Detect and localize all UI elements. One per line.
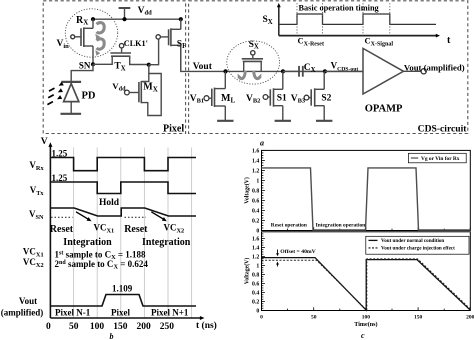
Vdd supply (119, 6, 152, 19)
chart c plot1 region labels (271, 222, 365, 228)
svg-text:150: 150 (113, 322, 128, 332)
svg-text:Time(ns): Time(ns) (354, 321, 377, 328)
svg-text:Vout (amplified): Vout (amplified) (404, 63, 465, 73)
annotation arrows VCx (76, 212, 167, 221)
svg-text:a: a (260, 139, 264, 148)
svg-text:1.2: 1.2 (252, 169, 259, 175)
svg-text:Pixel: Pixel (163, 123, 184, 134)
transistor Tx (pass gate CLK1') (93, 39, 149, 72)
junction Rx drain (91, 17, 95, 21)
svg-text:100: 100 (362, 314, 371, 320)
svg-text:b: b (110, 332, 114, 340)
diagram b gridlines (74, 148, 192, 319)
svg-text:(amplified): (amplified) (1, 308, 44, 318)
photodiode PD (61, 64, 96, 114)
svg-text:1.4: 1.4 (252, 159, 259, 165)
chart c plot2 y ticks (252, 234, 265, 315)
svg-text:S1: S1 (277, 94, 287, 104)
svg-text:0.4: 0.4 (252, 291, 259, 297)
node after Tx (147, 63, 151, 67)
chart c axis titles (244, 177, 251, 284)
svg-text:0.6: 0.6 (252, 199, 259, 205)
svg-text:200: 200 (136, 322, 151, 332)
svg-text:1: 1 (256, 179, 259, 185)
svg-text:1.109: 1.109 (112, 283, 133, 293)
capacitor Cx (283, 63, 325, 77)
svg-text:0.2: 0.2 (252, 300, 259, 306)
junction rail-SF (179, 17, 183, 21)
power rail wire (93, 18, 181, 20)
output terminal Vout (amplified) (404, 63, 465, 74)
svg-text:0.6: 0.6 (252, 282, 259, 288)
pixel box (43, 1, 185, 135)
chart c plot2 waveform normal (solid) (262, 258, 471, 311)
diagram b axes (41, 137, 217, 331)
svg-text:Vout under normal condition: Vout under normal condition (381, 238, 444, 244)
switch Sx (pass transistor) (242, 40, 263, 72)
node SN (79, 61, 95, 71)
svg-text:Vout: Vout (19, 296, 37, 306)
op-amp OPAMP (363, 48, 404, 114)
svg-text:Voltage(V): Voltage(V) (244, 177, 251, 204)
svg-text:V: V (41, 137, 48, 147)
svg-text:1.6: 1.6 (252, 149, 259, 155)
MOS capacitor Mx (gate to Vdd) (112, 65, 161, 116)
svg-text:Pixel N-1: Pixel N-1 (55, 308, 91, 318)
svg-text:0: 0 (260, 314, 263, 320)
chart c frame plot1 (262, 150, 471, 230)
svg-text:1: 1 (256, 264, 259, 270)
chart c offset annotation (276, 249, 317, 266)
svg-text:0: 0 (256, 309, 259, 315)
svg-text:150: 150 (414, 314, 423, 320)
svg-text:CDS-circuit: CDS-circuit (418, 123, 468, 134)
svg-text:Basic operation timing: Basic operation timing (299, 4, 380, 13)
svg-text:Reset operation: Reset operation (271, 222, 307, 228)
svg-text:50: 50 (311, 314, 317, 320)
waveform Vout amplified (1, 283, 196, 317)
svg-text:Vout: Vout (193, 62, 213, 72)
transistor ML (load, VB1) (190, 71, 236, 120)
svg-text:250: 250 (160, 322, 175, 332)
chart c x ticks (260, 227, 474, 327)
svg-text:Pixel: Pixel (111, 308, 130, 318)
svg-text:Reset: Reset (50, 224, 74, 235)
timing inset dotted guides (297, 3, 390, 35)
svg-text:0.2: 0.2 (252, 219, 259, 225)
svg-text:200: 200 (466, 314, 474, 320)
CDS-circuit box (189, 1, 468, 135)
charge injection ellipse at Rx (65, 9, 117, 57)
svg-text:0.8: 0.8 (252, 189, 259, 195)
svg-text:0: 0 (46, 322, 51, 332)
chart c legend 2 (366, 236, 469, 254)
junction Vout-ML (223, 69, 227, 73)
charge injection ellipse at Sx (227, 41, 280, 84)
light arrows (47, 82, 63, 105)
svg-text:c: c (361, 331, 365, 340)
junction Sx-S1 (281, 69, 285, 73)
wire to op-amp (325, 70, 363, 72)
svg-text:1.25: 1.25 (52, 149, 68, 159)
svg-text:t (ns): t (ns) (196, 320, 217, 331)
chart c plot1 y ticks (252, 149, 265, 235)
svg-text:1.6: 1.6 (252, 236, 259, 242)
svg-text:100: 100 (90, 322, 105, 332)
svg-text:Reset: Reset (124, 224, 148, 235)
wire Vout (pixel output) (181, 46, 363, 72)
chart c legend 1 (408, 153, 466, 163)
svg-text:Voltage(V): Voltage(V) (244, 258, 251, 285)
svg-text:0: 0 (256, 229, 259, 235)
svg-text:Vg or Vin for Rx: Vg or Vin for Rx (421, 156, 460, 162)
VSN dotted reference (51, 216, 146, 218)
waveform VTx (30, 173, 196, 197)
waveform VRx (29, 149, 196, 172)
pixel period labels (55, 308, 189, 318)
waveform VSN (29, 208, 196, 221)
svg-text:Integration: Integration (142, 237, 191, 248)
svg-text:PD: PD (82, 90, 96, 101)
transistor SF (source follower) (156, 19, 186, 71)
transistor S1 (VB2) (246, 71, 291, 120)
transistor S2 (VB3) (291, 71, 333, 120)
label c (361, 331, 365, 340)
svg-text:2nd sample to CX = 0.624: 2nd sample to CX = 0.624 (55, 259, 149, 271)
svg-text:50: 50 (69, 322, 79, 332)
svg-text:0.8: 0.8 (252, 273, 259, 279)
sample value lines (23, 247, 148, 271)
svg-text:1.25: 1.25 (52, 173, 68, 183)
svg-text:Integration: Integration (63, 237, 112, 248)
svg-text:OPAMP: OPAMP (365, 104, 403, 115)
label a (260, 139, 264, 148)
chart c plot2 waveform charge injection (dashed) (262, 259, 471, 310)
transistor Rx (57, 15, 94, 65)
svg-text:0.4: 0.4 (252, 209, 259, 215)
Hold label (99, 198, 120, 208)
node VCDS-out (323, 61, 359, 74)
svg-text:Pixel N+1: Pixel N+1 (151, 308, 189, 318)
svg-text:CLK1': CLK1' (124, 39, 148, 48)
timing inset labels (298, 4, 394, 48)
svg-text:1.4: 1.4 (252, 246, 259, 252)
chart c plot1 waveform Vg/Vin for Rx (262, 168, 471, 230)
svg-text:S2: S2 (321, 94, 331, 104)
junction Vdd-rail (122, 17, 126, 21)
svg-text:SN: SN (79, 61, 91, 71)
diagram b tick labels (46, 322, 174, 332)
label b (110, 332, 114, 340)
svg-text:Offset = 40mV: Offset = 40mV (280, 249, 316, 255)
chart c frame plot2 (262, 232, 471, 311)
svg-text:Vout under charge injection ef: Vout under charge injection effect (381, 246, 455, 252)
timing inset axes (263, 3, 452, 46)
diagram b phase labels (50, 223, 191, 248)
wire to SF gate (149, 39, 159, 65)
timing inset waveform Sx (279, 14, 436, 24)
svg-text:Hold: Hold (99, 198, 120, 208)
svg-text:Integration operation: Integration operation (316, 222, 366, 228)
svg-text:1.2: 1.2 (252, 255, 259, 261)
